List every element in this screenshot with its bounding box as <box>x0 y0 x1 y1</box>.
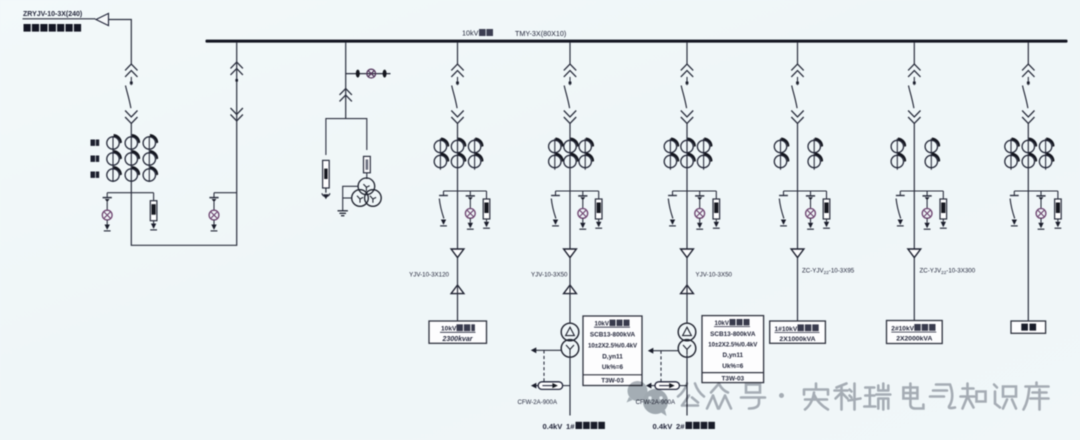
substation box 1 <box>770 321 826 343</box>
earthing switch F3 <box>668 191 677 226</box>
earthing switch F1 <box>439 191 448 226</box>
svg-text:10kV: 10kV <box>462 29 479 38</box>
svg-text:1#10kV: 1#10kV <box>775 326 798 333</box>
wire bus tap F5 <box>913 43 915 64</box>
CT wires F6 <box>1010 139 1012 170</box>
wire PT riser <box>345 43 347 119</box>
breaker QF incomer <box>125 64 137 123</box>
CT wires F1 <box>439 139 441 170</box>
svg-text:2X1000kVA: 2X1000kVA <box>779 336 815 343</box>
svg-text:T3W-03: T3W-03 <box>601 378 624 385</box>
svg-text:D,yn11: D,yn11 <box>602 353 623 360</box>
wire F5 main <box>913 124 915 250</box>
wire F1 main <box>457 124 459 250</box>
watermark wechat logo <box>627 381 669 416</box>
svg-text:SCB13-800kVA: SCB13-800kVA <box>710 331 756 338</box>
label 0.4kV LV2 <box>653 422 715 431</box>
arrester hook ground PT left leg <box>322 188 330 197</box>
busway link CFW T1 <box>536 385 538 387</box>
wire F6 branch <box>1014 190 1058 192</box>
earthing switch F5 <box>896 191 905 226</box>
fuse F3 <box>713 191 720 228</box>
wire T2 LV <box>686 355 688 416</box>
arrester F5 <box>922 191 932 229</box>
wire T2 aux arrow left <box>653 350 679 352</box>
wire T1 LV <box>569 355 571 416</box>
arrester FV2 tie riser <box>209 193 219 231</box>
wire F3 branch <box>673 190 717 192</box>
earthing switch F4 <box>779 191 788 226</box>
cable head down F4 <box>791 249 804 258</box>
wire incomer branch horizontal <box>107 192 153 194</box>
CT grid 3x3 incomer <box>107 134 158 181</box>
busway link CFW T2 <box>651 385 655 387</box>
incoming arrow head <box>96 13 109 25</box>
wire F2 main <box>569 124 571 250</box>
wire incomer to CT <box>130 124 132 191</box>
wire bus tap F3 <box>686 43 688 64</box>
svg-text:2#: 2# <box>676 422 685 431</box>
incoming source label (bold) <box>24 24 82 32</box>
fuse PT right leg <box>364 156 371 172</box>
svg-text:2300kvar: 2300kvar <box>442 336 474 343</box>
svg-text:10kV: 10kV <box>595 320 610 327</box>
wire F5 branch <box>900 190 943 192</box>
cable head down F2 <box>564 249 577 258</box>
arrester F3 <box>695 191 705 229</box>
svg-text:ZC-YJV22-10-3X300: ZC-YJV22-10-3X300 <box>920 268 976 276</box>
wire F3 main <box>686 124 688 250</box>
wire to PT windings <box>366 173 368 179</box>
svg-text:10±2X2.5%/0.4kV: 10±2X2.5%/0.4kV <box>708 342 758 349</box>
CT grid 2x2 F5 <box>891 138 940 168</box>
label 0.4kV LV1 <box>543 422 605 431</box>
svg-text:1#: 1# <box>566 422 575 431</box>
svg-text:T3W-03: T3W-03 <box>721 375 744 382</box>
arrester F6 <box>1036 191 1046 229</box>
watermark text (grey) <box>678 383 1049 410</box>
wire T1 aux arrow left <box>536 349 562 351</box>
svg-text:10±2X2.5%/0.4kV: 10±2X2.5%/0.4kV <box>588 343 638 350</box>
wire F2 to transformer <box>569 258 571 324</box>
fuse PT left leg <box>323 160 330 188</box>
CT grid 2x2 F4 <box>774 138 823 168</box>
wire PT split <box>326 119 367 155</box>
wire F5 to box <box>913 258 915 321</box>
wire bus tap F4 <box>797 43 799 64</box>
breaker QF5 <box>908 64 920 123</box>
CT side wires incomer <box>112 136 114 182</box>
breaker QF4 <box>791 64 803 123</box>
fuse F1 <box>483 191 490 228</box>
CT wires F4 <box>780 139 782 170</box>
PT three-winding symbol <box>352 178 382 206</box>
cable head up F2 <box>564 285 577 294</box>
CT wires F2 <box>554 139 556 170</box>
arrester FV1 incomer <box>102 193 112 231</box>
cable head up F3 <box>681 285 694 294</box>
transformer T1 SCB13-800kVA <box>561 323 579 357</box>
fuse bead PT top branch <box>356 70 360 78</box>
CT row labels <box>91 140 100 178</box>
wire PT top branch <box>346 73 391 75</box>
fuse F5 <box>940 191 947 228</box>
svg-text:YJV-10-3X50: YJV-10-3X50 <box>696 272 733 279</box>
wire tie arrester branch <box>214 192 237 194</box>
CT grid 3x2 F2 <box>549 138 595 168</box>
wire F4 main <box>797 124 799 250</box>
breaker QF2 <box>564 64 576 123</box>
nameplate box T2 <box>702 316 764 383</box>
svg-text:Uk%=6: Uk%=6 <box>722 363 744 370</box>
spare box <box>1011 321 1046 333</box>
ground PT bracket <box>343 186 359 210</box>
fuse F4 <box>823 191 830 228</box>
svg-text:YJV-10-3X120: YJV-10-3X120 <box>409 272 449 279</box>
wire F1 to box <box>457 258 459 321</box>
svg-text:ZRYJV-10-3X(240): ZRYJV-10-3X(240) <box>23 11 82 18</box>
wire bus tap F2 <box>569 43 571 64</box>
svg-text:0.4kV: 0.4kV <box>543 422 564 431</box>
arrester PT top branch <box>367 69 376 78</box>
CT grid 3x2 F1 <box>434 138 483 168</box>
svg-text:ZC-YJV22-10-3X95: ZC-YJV22-10-3X95 <box>802 268 855 276</box>
capacitor cabinet box 2300kvar <box>429 321 487 343</box>
svg-text:2X2000kVA: 2X2000kVA <box>896 336 932 343</box>
wire bus tap F1 <box>457 43 459 64</box>
wire F4 to box <box>797 258 799 321</box>
svg-text:10kV: 10kV <box>441 326 457 333</box>
breaker QF3 <box>681 64 693 123</box>
svg-text:TMY-3X(80X10): TMY-3X(80X10) <box>515 29 566 38</box>
fuse F6 <box>1055 191 1062 228</box>
nameplate box T1 <box>583 316 642 386</box>
svg-text:0.4kV: 0.4kV <box>653 422 674 431</box>
svg-text:D,yn11: D,yn11 <box>722 352 743 359</box>
wire bus tap F6 <box>1027 43 1029 64</box>
svg-text:Uk%=6: Uk%=6 <box>602 364 624 371</box>
svg-text:SCB13-800kVA: SCB13-800kVA <box>590 332 636 339</box>
earthing switch F2 <box>551 191 560 226</box>
fuse R1 incomer <box>150 193 157 230</box>
wire incoming top <box>109 20 132 65</box>
cable head down F1 <box>451 249 464 258</box>
cable head up F1 <box>451 285 464 294</box>
svg-text:CFW-2A-900A: CFW-2A-900A <box>518 399 558 406</box>
wire F2 branch <box>556 190 599 192</box>
wire F3 to transformer <box>686 258 688 324</box>
svg-text:YJV-10-3X50: YJV-10-3X50 <box>531 272 568 279</box>
wire F6 main <box>1027 124 1029 322</box>
arrester F4 <box>806 191 816 229</box>
transformer T2 SCB13-800kVA <box>678 323 696 357</box>
earthing switch F6 <box>1010 191 1019 226</box>
isolating truck chevrons bus-tie riser <box>231 62 243 75</box>
fuse bead 2 PT top branch <box>383 70 387 78</box>
wire F4 branch <box>784 190 827 192</box>
fuse F2 <box>595 191 602 228</box>
CT grid 3x2 F3 <box>664 138 712 168</box>
substation box 2 <box>887 321 943 344</box>
cable head down F5 <box>908 249 921 258</box>
bus label 10kV <box>462 29 493 38</box>
CT grid 3x2 F6 <box>1005 138 1055 168</box>
cable head down F3 <box>681 249 694 258</box>
CT wires F5 <box>896 139 898 170</box>
drawout chevrons PT <box>340 89 352 102</box>
breaker QF1 <box>451 64 463 123</box>
CT wires F3 <box>669 139 671 170</box>
arrester F2 <box>578 191 588 229</box>
dashed riser T2 <box>660 351 662 382</box>
svg-text:2#10kV: 2#10kV <box>891 325 914 332</box>
arrester F1 <box>465 191 475 229</box>
wire F1 branch <box>444 190 487 192</box>
svg-text:10kV: 10kV <box>715 320 730 327</box>
wire incomer bottom U-link <box>131 43 236 246</box>
incoming label underline <box>23 18 96 20</box>
dashed riser T1 <box>543 350 545 382</box>
breaker QF6 <box>1022 64 1034 123</box>
busbar 10kV TMY-3X(80X10) <box>206 40 1068 43</box>
